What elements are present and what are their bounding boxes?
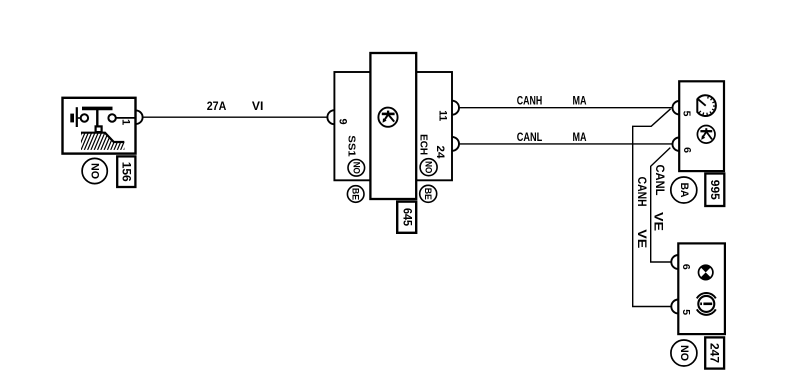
ECU outer box xyxy=(334,72,452,180)
connector bump module pin 5 xyxy=(671,300,678,314)
svg-text:27A: 27A xyxy=(207,99,227,113)
svg-text:1: 1 xyxy=(120,119,132,125)
svg-text:9: 9 xyxy=(336,119,348,125)
svg-text:ECH: ECH xyxy=(418,134,430,155)
pin label 1 xyxy=(120,119,132,125)
connector bump pin 1 of switch 156 xyxy=(136,110,143,124)
code box 247 xyxy=(705,337,724,368)
svg-text:NO: NO xyxy=(678,345,690,361)
wire label CANH xyxy=(517,94,543,108)
code circle NO left xyxy=(348,160,365,177)
display module box 247 xyxy=(678,243,725,334)
wire label MA xyxy=(573,94,587,108)
cluster K symbol xyxy=(697,126,715,144)
svg-text:24: 24 xyxy=(434,146,446,160)
svg-text:NO: NO xyxy=(424,161,434,173)
svg-text:6: 6 xyxy=(681,147,693,153)
ECU K symbol xyxy=(378,108,397,127)
wire W1 switch pin1 to ECU pin9 xyxy=(143,116,328,118)
branch label VE xyxy=(635,229,649,248)
svg-text:SS1: SS1 xyxy=(345,135,357,157)
connector bump cluster pin 5 xyxy=(673,101,680,114)
svg-text:BA: BA xyxy=(678,183,690,198)
svg-text:VE: VE xyxy=(652,212,666,231)
gauge symbol xyxy=(697,95,716,116)
svg-text:CANL: CANL xyxy=(517,130,543,144)
code circle BA xyxy=(671,177,697,203)
component code box 156 xyxy=(117,156,135,187)
wire W3 CANL: ECU pin24 to cluster pin6 xyxy=(459,143,673,145)
connector label SS1 xyxy=(345,135,357,157)
control unit quadrant symbol xyxy=(699,265,713,279)
wire label VI xyxy=(252,99,264,113)
instrument cluster box 995 xyxy=(679,81,724,171)
svg-text:MA: MA xyxy=(573,94,587,108)
switch cam follower square xyxy=(96,126,102,132)
cam ramp hatching xyxy=(74,132,132,151)
fixed contact link xyxy=(78,117,81,119)
wire W2 CANH: ECU pin11 to cluster pin5 xyxy=(459,107,673,109)
connector bump ECU pin 11 xyxy=(452,101,459,115)
ECU inner box xyxy=(370,53,416,199)
svg-text:CANL: CANL xyxy=(653,165,667,196)
code circle NO lower xyxy=(671,340,697,366)
code circle NO right xyxy=(420,159,437,176)
svg-text:BE: BE xyxy=(423,188,433,200)
svg-text:5: 5 xyxy=(681,111,693,117)
wire label 27A xyxy=(207,99,227,113)
code circle BE left xyxy=(347,186,364,203)
code circle NO (switch) xyxy=(82,158,107,183)
contact circle right xyxy=(108,114,115,121)
svg-text:156: 156 xyxy=(119,162,133,182)
svg-text:995: 995 xyxy=(708,180,722,200)
branch label CANL xyxy=(653,165,667,196)
switch 156 component box xyxy=(63,98,136,154)
wire label MA xyxy=(573,130,587,144)
pin label 5 lower xyxy=(680,309,692,315)
pin label 24 xyxy=(434,146,446,160)
svg-text:11: 11 xyxy=(436,110,448,121)
fixed contact wall bar xyxy=(70,114,74,123)
display gauge symbol xyxy=(697,293,716,315)
contact circle left xyxy=(81,114,88,121)
fixed contact post xyxy=(76,107,78,127)
pin label 11 xyxy=(436,110,448,121)
svg-text:NO: NO xyxy=(351,162,361,174)
svg-text:VE: VE xyxy=(635,229,649,248)
connector bump module pin 6 xyxy=(671,255,678,269)
connector label ECH xyxy=(418,134,430,155)
internal wire to pin 1 xyxy=(116,117,136,119)
svg-text:MA: MA xyxy=(573,130,587,144)
svg-text:5: 5 xyxy=(680,309,692,315)
wire CANH branch to lower module pin5 xyxy=(633,109,672,307)
svg-text:CANH: CANH xyxy=(517,94,543,108)
svg-text:6: 6 xyxy=(680,264,692,270)
svg-text:VI: VI xyxy=(252,99,264,113)
pin label 6 lower xyxy=(680,264,692,270)
connector bump ECU pin 9 xyxy=(327,110,334,124)
connector bump ECU pin 24 xyxy=(452,137,459,151)
pin label 5 xyxy=(681,111,693,117)
svg-text:CANH: CANH xyxy=(635,177,649,207)
pin label 9 xyxy=(336,119,348,125)
ECU code box 645 xyxy=(397,202,416,233)
code circle BE right xyxy=(420,185,437,202)
cam ramp profile xyxy=(81,133,124,142)
pin label 6 xyxy=(681,147,693,153)
wire CANL branch to lower module pin6 xyxy=(651,148,672,262)
svg-text:247: 247 xyxy=(708,343,722,363)
svg-text:645: 645 xyxy=(401,208,413,227)
code box 995 xyxy=(705,174,724,207)
branch label VE xyxy=(652,212,666,231)
switch stem xyxy=(96,110,98,127)
wire label CANL xyxy=(517,130,543,144)
svg-text:NO: NO xyxy=(89,163,101,179)
connector bump cluster pin 6 xyxy=(673,138,680,151)
switch top bar xyxy=(82,107,113,111)
svg-text:BE: BE xyxy=(351,188,361,200)
branch label CANH xyxy=(635,177,649,207)
